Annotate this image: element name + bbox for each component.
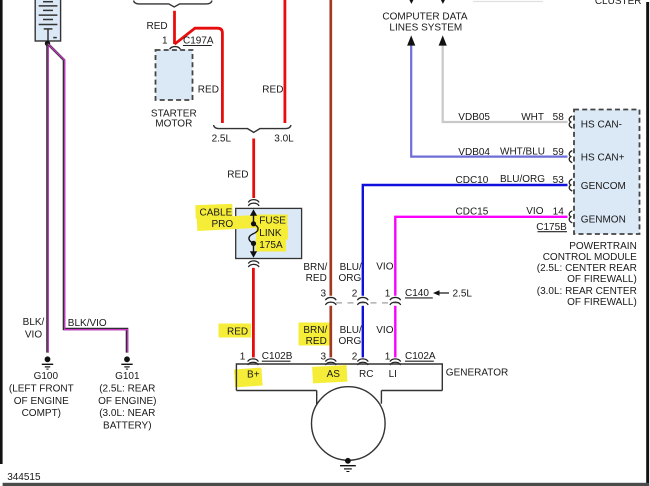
svg-text:VDB04: VDB04 xyxy=(458,147,490,158)
svg-text:CDC10: CDC10 xyxy=(456,175,489,186)
svg-text:53: 53 xyxy=(553,175,565,186)
svg-text:WHT/BLU: WHT/BLU xyxy=(500,146,545,157)
svg-text:OF FIREWALL): OF FIREWALL) xyxy=(567,274,637,285)
svg-text:(3.0L: REAR CENTER: (3.0L: REAR CENTER xyxy=(537,286,637,297)
svg-text:VIO: VIO xyxy=(376,325,393,336)
svg-text:BRN/: BRN/ xyxy=(303,262,327,273)
svg-text:VIO: VIO xyxy=(526,206,543,217)
svg-text:1: 1 xyxy=(385,288,391,299)
svg-text:LINK: LINK xyxy=(259,228,282,239)
svg-text:BLK/: BLK/ xyxy=(23,317,45,328)
svg-text:3.0L: 3.0L xyxy=(274,134,294,145)
svg-text:(LEFT FRONT: (LEFT FRONT xyxy=(9,384,74,395)
svg-text:58: 58 xyxy=(553,112,565,123)
svg-text:GENERATOR: GENERATOR xyxy=(446,368,508,379)
svg-text:CONTROL MODULE: CONTROL MODULE xyxy=(543,252,637,263)
svg-text:COMPT): COMPT) xyxy=(22,408,61,419)
svg-text:RC: RC xyxy=(359,369,373,380)
svg-text:OF FIREWALL): OF FIREWALL) xyxy=(567,297,637,308)
svg-text:RED: RED xyxy=(262,84,283,95)
svg-text:POWERTRAIN: POWERTRAIN xyxy=(569,241,637,252)
svg-text:GENCOM: GENCOM xyxy=(581,181,626,192)
svg-text:G100: G100 xyxy=(34,371,59,382)
svg-text:HS CAN+: HS CAN+ xyxy=(581,153,625,164)
svg-text:1: 1 xyxy=(240,352,246,363)
svg-text:MOTOR: MOTOR xyxy=(155,119,192,130)
svg-text:CLUSTER: CLUSTER xyxy=(595,0,642,7)
svg-text:VIO: VIO xyxy=(25,329,42,340)
svg-text:(2.5L: REAR: (2.5L: REAR xyxy=(99,384,155,395)
svg-text:BLU/: BLU/ xyxy=(340,262,362,273)
svg-text:BATTERY): BATTERY) xyxy=(103,421,152,432)
svg-text:C102B: C102B xyxy=(262,351,293,362)
svg-text:14: 14 xyxy=(553,207,565,218)
svg-text:RED: RED xyxy=(306,273,327,284)
svg-text:FUSE: FUSE xyxy=(259,216,286,227)
svg-text:3: 3 xyxy=(320,288,326,299)
svg-text:2: 2 xyxy=(352,352,358,363)
svg-text:3: 3 xyxy=(320,352,326,363)
svg-text:2.5L: 2.5L xyxy=(453,288,473,299)
svg-text:PRO: PRO xyxy=(212,219,234,230)
svg-text:LI: LI xyxy=(389,369,397,380)
svg-text:RED: RED xyxy=(227,170,248,181)
svg-text:VIO: VIO xyxy=(376,262,393,273)
svg-text:GENMON: GENMON xyxy=(581,214,626,225)
svg-text:ORG: ORG xyxy=(339,336,362,347)
svg-text:RED: RED xyxy=(227,327,248,338)
svg-text:C140: C140 xyxy=(405,288,429,299)
svg-text:BLU/: BLU/ xyxy=(340,325,362,336)
svg-text:OF ENGINE: OF ENGINE xyxy=(14,396,69,407)
svg-text:CDC15: CDC15 xyxy=(456,207,489,218)
svg-text:LINES SYSTEM: LINES SYSTEM xyxy=(389,23,462,34)
svg-text:2.5L: 2.5L xyxy=(212,134,232,145)
svg-text:RED: RED xyxy=(198,84,219,95)
svg-text:BRN/: BRN/ xyxy=(303,325,327,336)
svg-text:1: 1 xyxy=(385,352,391,363)
svg-text:HS CAN-: HS CAN- xyxy=(581,120,622,131)
svg-text:OF ENGINE): OF ENGINE) xyxy=(98,396,156,407)
svg-text:BLU/ORG: BLU/ORG xyxy=(500,174,545,185)
svg-text:WHT: WHT xyxy=(521,112,544,123)
svg-text:COMPUTER DATA: COMPUTER DATA xyxy=(382,11,468,22)
svg-text:2: 2 xyxy=(352,288,358,299)
svg-text:ORG: ORG xyxy=(339,273,362,284)
svg-text:CABLE: CABLE xyxy=(200,208,233,219)
svg-text:(3.0L: NEAR: (3.0L: NEAR xyxy=(99,408,155,419)
svg-text:C102A: C102A xyxy=(405,351,436,362)
svg-text:59: 59 xyxy=(553,147,565,158)
svg-text:RED: RED xyxy=(147,21,168,32)
svg-text:AS: AS xyxy=(327,369,341,380)
svg-text:BLK/VIO: BLK/VIO xyxy=(68,318,107,329)
svg-text:B+: B+ xyxy=(247,370,260,381)
svg-text:RED: RED xyxy=(306,336,327,347)
svg-text:175A: 175A xyxy=(259,240,283,251)
svg-text:VDB05: VDB05 xyxy=(458,112,490,123)
svg-text:G101: G101 xyxy=(115,371,140,382)
svg-text:(2.5L: CENTER REAR: (2.5L: CENTER REAR xyxy=(537,263,637,274)
svg-text:344515: 344515 xyxy=(7,472,41,483)
svg-text:1: 1 xyxy=(162,36,168,47)
